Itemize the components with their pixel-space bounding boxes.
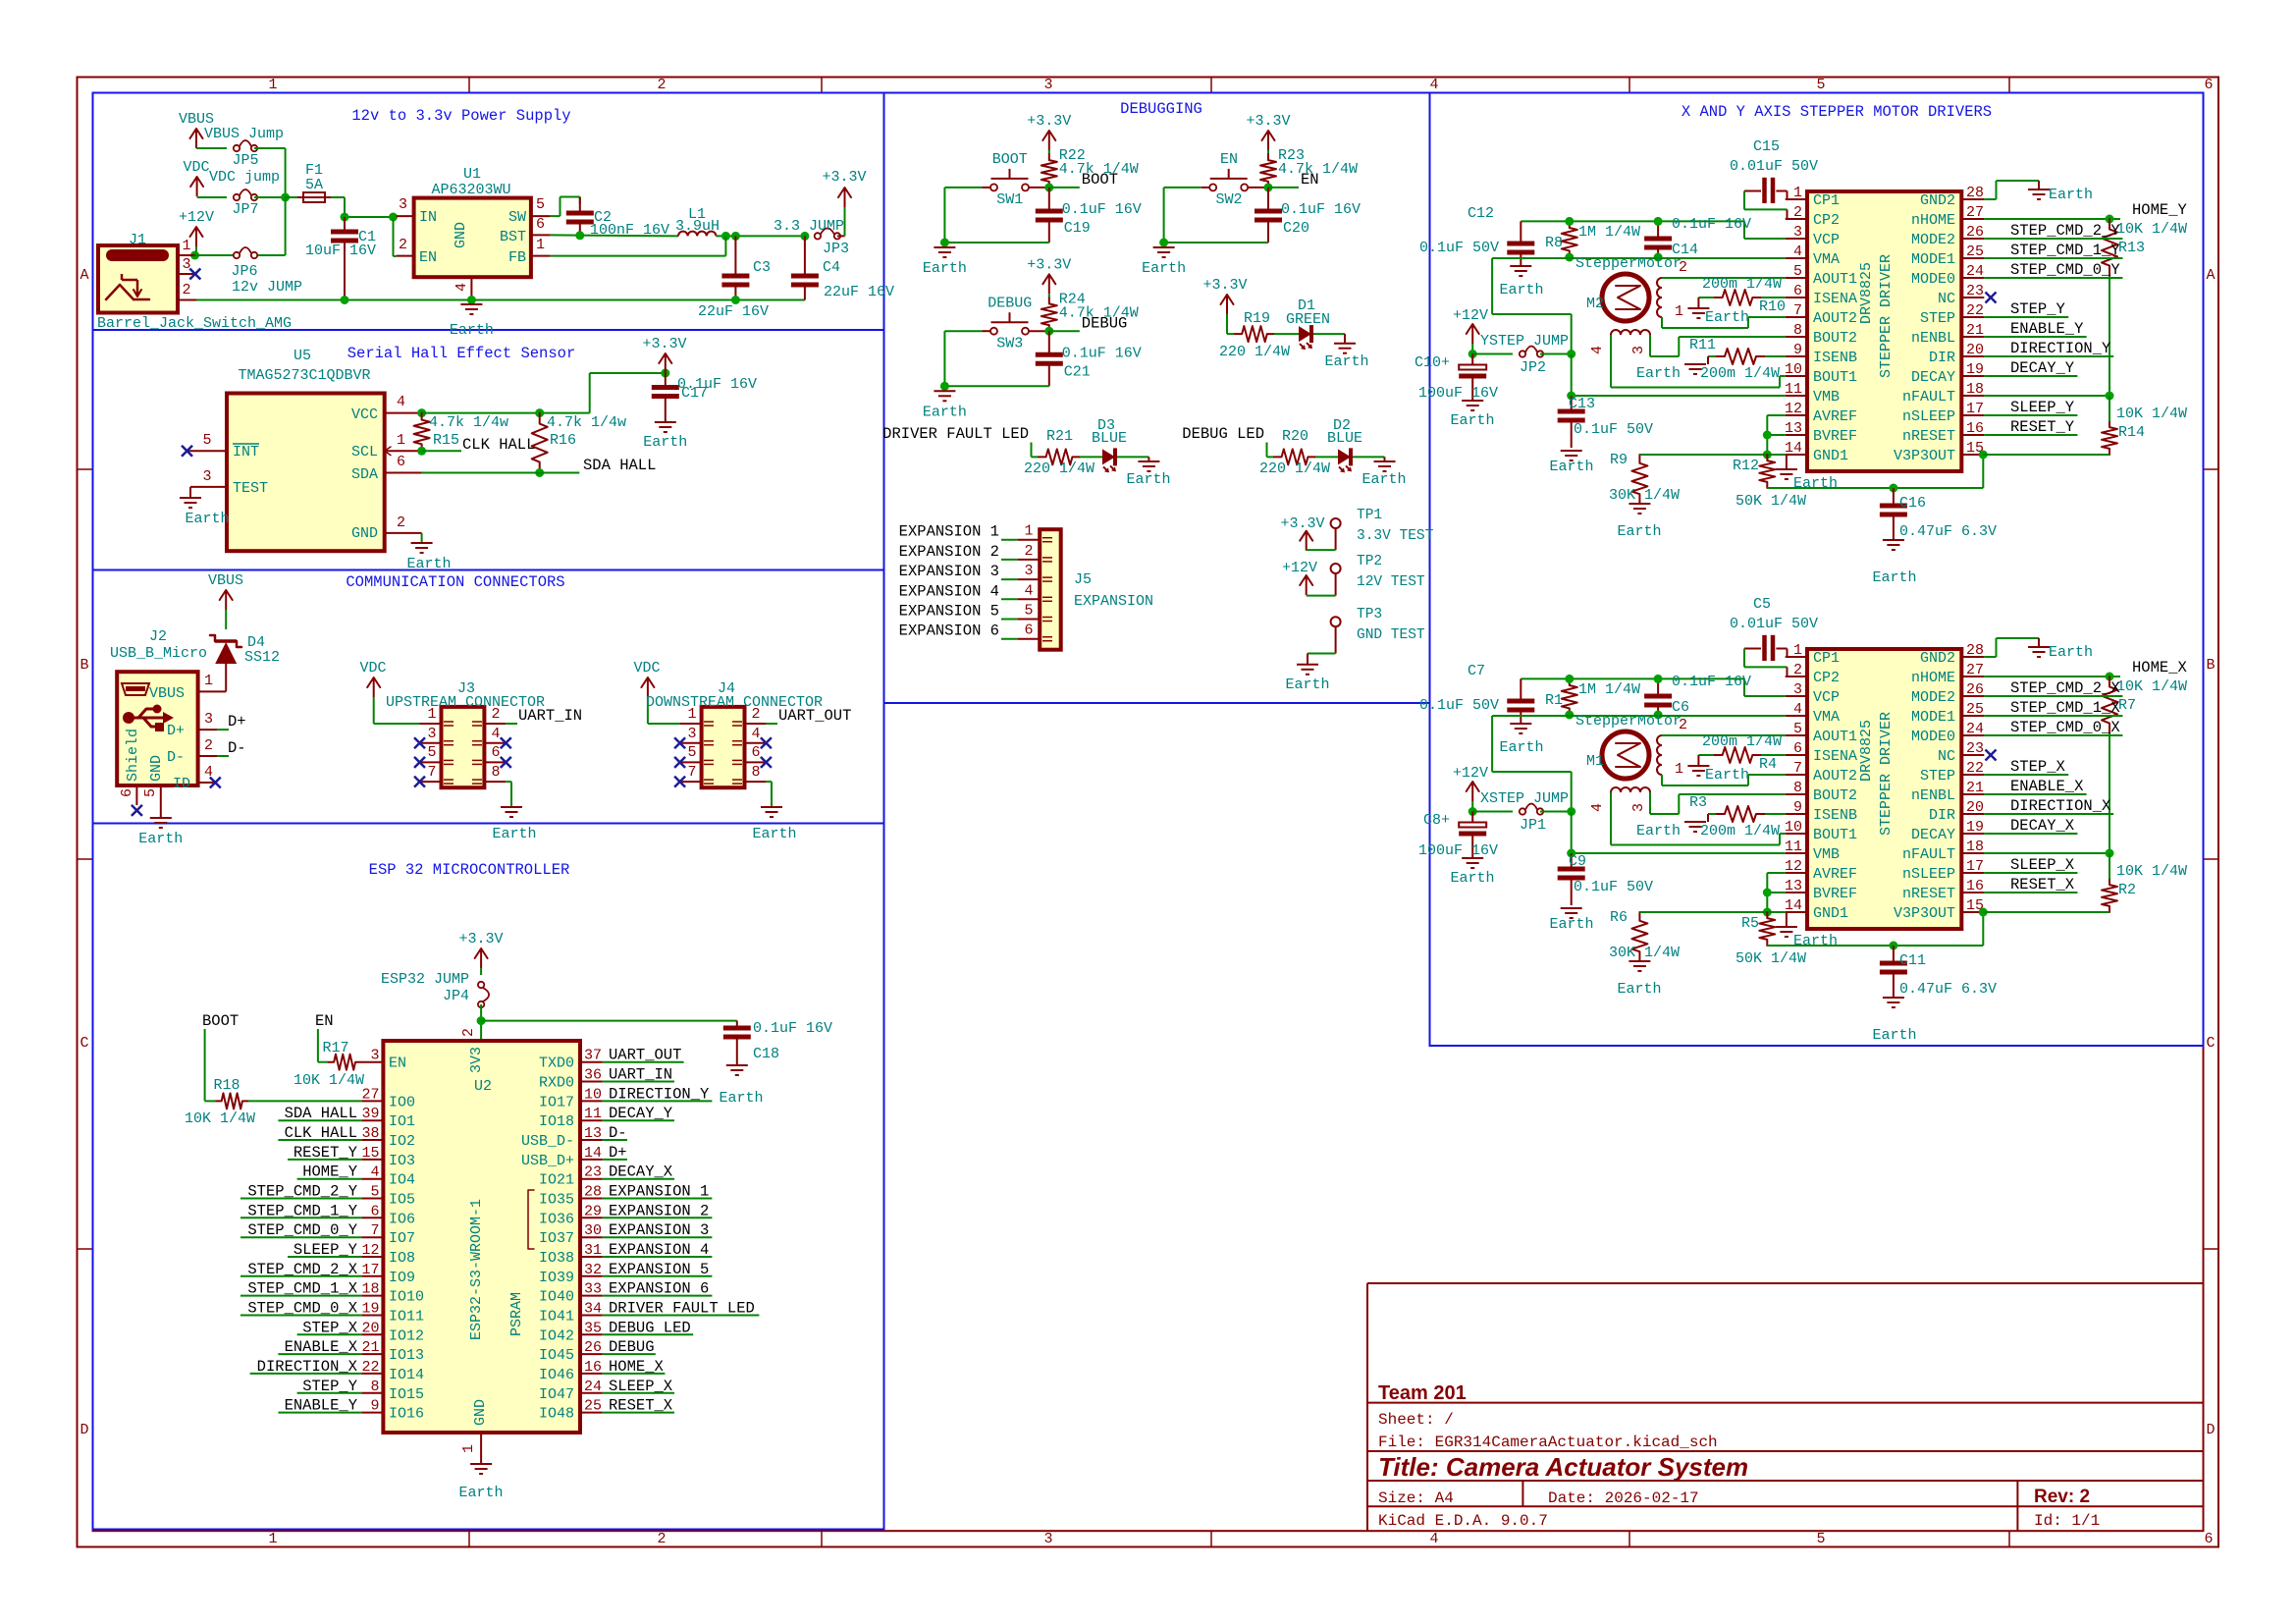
svg-text:1: 1 [182, 238, 190, 254]
svg-text:DEBUGGING: DEBUGGING [1120, 100, 1202, 118]
svg-text:RESET_Y: RESET_Y [2010, 418, 2075, 436]
J3 pin 7 [420, 781, 442, 783]
wire R12 to V3P3OUT Y [1767, 487, 1983, 489]
svg-text:0.47uF 6.3V: 0.47uF 6.3V [1899, 981, 1997, 998]
resistor R4 200m [1714, 747, 1761, 763]
fuse F1 [286, 196, 297, 198]
svg-text:EXPANSION 2: EXPANSION 2 [609, 1202, 709, 1219]
capacitor C1 [344, 217, 346, 230]
wire J1 pin1 to JP6 [195, 254, 238, 256]
svg-text:220 1/4W: 220 1/4W [1219, 344, 1290, 360]
ground C16 [1883, 539, 1904, 541]
svg-text:nRESET: nRESET [1902, 886, 1955, 902]
svg-text:13: 13 [584, 1125, 602, 1142]
svg-text:19: 19 [1966, 819, 1984, 836]
ground D1 [1334, 343, 1356, 345]
jumper JP7 [234, 194, 240, 200]
svg-text:1: 1 [1793, 185, 1802, 201]
svg-text:27: 27 [1966, 204, 1984, 221]
pin 18 nFAULT X [1961, 852, 1984, 854]
pin 19 DECAY Y [1961, 375, 1984, 377]
svg-text:DRV8825: DRV8825 [1858, 262, 1875, 324]
svg-text:IO38: IO38 [539, 1250, 574, 1267]
svg-text:C19: C19 [1064, 220, 1091, 237]
svg-text:23: 23 [1966, 283, 1984, 299]
capacitor C20 [1267, 188, 1269, 209]
svg-text:C9: C9 [1569, 853, 1586, 870]
U2 pin 16 IO46 [580, 1373, 603, 1375]
svg-text:GND TEST: GND TEST [1357, 627, 1425, 643]
pin 10 BOUT1 Y [1786, 375, 1807, 377]
svg-text:21: 21 [361, 1339, 379, 1356]
svg-text:EXPANSION 5: EXPANSION 5 [609, 1261, 709, 1278]
svg-text:UART_IN: UART_IN [518, 707, 582, 725]
svg-text:CP1: CP1 [1813, 650, 1840, 667]
svg-text:6: 6 [1793, 283, 1802, 299]
pin 21 nENBL X [1961, 793, 1984, 795]
IC U2 ESP32-S3-WROOM-1 [383, 1041, 580, 1433]
svg-text:37: 37 [584, 1048, 602, 1064]
svg-text:7: 7 [1793, 760, 1802, 777]
J4 pin 2 UART_OUT [745, 723, 767, 725]
svg-text:14: 14 [584, 1145, 602, 1162]
svg-text:D-: D- [609, 1124, 627, 1142]
switch SW1 [983, 187, 991, 189]
svg-text:R17: R17 [322, 1040, 348, 1056]
svg-text:IN: IN [419, 209, 437, 226]
svg-text:MODE2: MODE2 [1911, 232, 1955, 248]
svg-text:25: 25 [1966, 244, 1984, 260]
J3 pin 1 [420, 723, 442, 725]
svg-text:+3.3V: +3.3V [1027, 113, 1071, 130]
svg-text:DRIVER FAULT LED: DRIVER FAULT LED [609, 1300, 755, 1318]
svg-text:BOOT: BOOT [992, 151, 1028, 168]
svg-text:STEP_CMD_2_Y: STEP_CMD_2_Y [2010, 222, 2120, 240]
svg-text:INT: INT [233, 444, 259, 460]
ground D3 [1138, 460, 1159, 462]
wire nFAULT Y [1984, 395, 2109, 397]
power +3.3V SW2 [1267, 131, 1269, 150]
svg-text:9: 9 [1793, 342, 1802, 358]
junction R8 top [1565, 217, 1574, 226]
capacitor C7 [1520, 678, 1522, 699]
svg-text:C5: C5 [1753, 596, 1771, 613]
svg-text:STEP: STEP [1920, 768, 1955, 785]
svg-text:D-: D- [167, 749, 185, 766]
svg-text:5: 5 [536, 196, 545, 213]
wire ENABLE_X [1984, 793, 2086, 795]
wire JP7 to junction [254, 196, 286, 198]
svg-text:C20: C20 [1283, 220, 1309, 237]
svg-text:DIRECTION_X: DIRECTION_X [257, 1358, 358, 1376]
U2 pin 39 IO1 [361, 1119, 383, 1121]
svg-text:6: 6 [491, 744, 500, 761]
wire DECAY_Y [1984, 375, 2077, 377]
resistor R14 10K [2102, 421, 2117, 455]
svg-text:ENABLE_Y: ENABLE_Y [285, 1397, 358, 1415]
capacitor C18 [736, 1021, 738, 1026]
capacitor C2 [579, 197, 581, 212]
resistor R1 1M [1562, 678, 1577, 715]
svg-text:34: 34 [584, 1301, 602, 1318]
pin 14 GND1 Y [1786, 454, 1807, 456]
svg-text:SW3: SW3 [996, 335, 1023, 352]
svg-text:R11: R11 [1689, 337, 1716, 353]
wire DECAY_X [1984, 833, 2077, 835]
capacitor C19 [1048, 188, 1050, 209]
svg-text:+3.3V: +3.3V [1246, 113, 1290, 130]
svg-text:IO4: IO4 [389, 1172, 415, 1189]
svg-text:8: 8 [491, 764, 500, 781]
U2 pin 7 IO7 [361, 1236, 383, 1238]
pin 27 nHOME X [1961, 676, 1984, 677]
U5 pin 3 TEST [190, 486, 227, 488]
svg-text:nFAULT: nFAULT [1902, 846, 1955, 863]
svg-text:HOME_Y: HOME_Y [2132, 201, 2188, 219]
svg-text:R21: R21 [1046, 428, 1073, 445]
capacitor C13 [1571, 396, 1573, 409]
no-connect J3 pin5 [414, 757, 425, 768]
svg-text:Earth: Earth [1362, 471, 1406, 488]
svg-text:0.47uF 6.3V: 0.47uF 6.3V [1899, 523, 1997, 540]
U5 pin 1 SCL [385, 450, 422, 452]
ground C8 [1462, 857, 1483, 859]
svg-text:IO35: IO35 [539, 1192, 574, 1209]
svg-text:+3.3V: +3.3V [1027, 256, 1071, 273]
svg-text:28: 28 [1966, 185, 1984, 201]
svg-text:3: 3 [1024, 563, 1033, 579]
svg-text:SLEEP_Y: SLEEP_Y [294, 1241, 358, 1259]
svg-text:200m 1/4W: 200m 1/4W [1702, 733, 1782, 750]
svg-text:0.1uF 50V: 0.1uF 50V [1574, 879, 1653, 895]
resistor R5 50K [1759, 912, 1775, 946]
capacitor C15 [1787, 191, 1789, 200]
svg-text:26: 26 [1966, 681, 1984, 698]
svg-text:C13: C13 [1569, 396, 1595, 412]
svg-text:+12V: +12V [1282, 560, 1317, 576]
svg-text:Earth: Earth [1499, 282, 1543, 298]
test point TP3 [1331, 617, 1341, 626]
U2 pin 34 IO41 [580, 1315, 603, 1317]
no-connect J4 pin7 [674, 777, 685, 787]
svg-text:EXPANSION 1: EXPANSION 1 [609, 1183, 709, 1201]
wire JP5 to bus corner [254, 147, 286, 149]
svg-text:Date: 2026-02-17: Date: 2026-02-17 [1548, 1489, 1699, 1507]
svg-text:R15: R15 [433, 432, 459, 449]
wire STEP_Y [1984, 316, 2068, 318]
svg-text:220 1/4W: 220 1/4W [1259, 460, 1330, 477]
svg-text:Earth: Earth [406, 556, 451, 572]
wire VBUS to JP5 [196, 147, 227, 149]
svg-text:SCL: SCL [351, 444, 378, 460]
resistor R3 200m [1716, 806, 1765, 822]
svg-text:EXPANSION 2: EXPANSION 2 [899, 543, 999, 561]
svg-text:R13: R13 [2118, 240, 2145, 256]
ground U5 GND [421, 533, 423, 543]
svg-text:IO18: IO18 [539, 1113, 574, 1130]
U2 pin 17 IO9 [361, 1275, 383, 1277]
svg-text:+3.3V: +3.3V [1280, 515, 1324, 532]
svg-text:6: 6 [751, 744, 760, 761]
svg-text:File: EGR314CameraActuator.kic: File: EGR314CameraActuator.kicad_sch [1378, 1434, 1718, 1451]
svg-text:3.3 JUMP: 3.3 JUMP [774, 218, 844, 235]
capacitor C10 100uF [1471, 354, 1473, 366]
svg-text:DEBUG: DEBUG [1082, 314, 1128, 332]
svg-text:KiCad E.D.A. 9.0.7: KiCad E.D.A. 9.0.7 [1378, 1512, 1548, 1530]
wire BOUT1 Y [1610, 335, 1612, 388]
svg-text:RESET_Y: RESET_Y [294, 1144, 358, 1162]
U2 pin 21 IO13 [361, 1353, 383, 1355]
no-connect J4 pin3 [674, 737, 685, 748]
svg-text:8: 8 [1793, 322, 1802, 339]
U2 pin 3 EN [361, 1061, 383, 1063]
svg-text:Earth: Earth [1549, 459, 1593, 475]
svg-text:220 1/4W: 220 1/4W [1024, 460, 1095, 477]
svg-text:3V3: 3V3 [468, 1047, 485, 1073]
svg-text:1: 1 [460, 1444, 477, 1453]
svg-text:nHOME: nHOME [1911, 670, 1955, 686]
svg-text:VMA: VMA [1813, 251, 1840, 268]
svg-text:1: 1 [687, 706, 696, 723]
U2 pin 32 IO39 [580, 1275, 603, 1277]
svg-text:GND1: GND1 [1813, 905, 1848, 922]
svg-text:6: 6 [119, 788, 135, 797]
svg-text:VBUS: VBUS [149, 685, 185, 702]
svg-text:ISENB: ISENB [1813, 350, 1857, 366]
U2 pin 4 IO4 [361, 1178, 383, 1180]
svg-text:Earth: Earth [138, 831, 183, 847]
svg-text:CP2: CP2 [1813, 212, 1840, 229]
wire VMB rail X [1571, 812, 1573, 854]
pin 7 AOUT2 X [1786, 774, 1807, 776]
power +3.3V SW3 [1048, 274, 1050, 294]
svg-text:Earth: Earth [923, 404, 967, 420]
junction SCL R15 [417, 447, 426, 456]
svg-text:3: 3 [1793, 681, 1802, 698]
U2 pin 8 IO15 [361, 1392, 383, 1394]
capacitor C11 0.47uF [1893, 946, 1895, 961]
pin 16 nRESET Y [1961, 434, 1984, 436]
svg-text:EXPANSION: EXPANSION [1074, 593, 1153, 610]
svg-text:24: 24 [1966, 721, 1984, 737]
svg-text:SLEEP_X: SLEEP_X [2010, 856, 2075, 874]
svg-text:22: 22 [1966, 760, 1984, 777]
ground C17 [655, 421, 676, 423]
wire V3P3OUT to R14 X [1983, 911, 2109, 913]
no-connect J4 pin4 [761, 737, 772, 748]
svg-text:27: 27 [361, 1086, 379, 1103]
svg-text:11: 11 [584, 1106, 602, 1122]
svg-text:VBUS: VBUS [208, 572, 243, 589]
power +3.3V TP1 [1306, 531, 1308, 551]
J4 pin 5 [680, 761, 702, 763]
wire driver fault led [1031, 443, 1033, 458]
svg-text:Earth: Earth [185, 511, 229, 527]
svg-text:JP2: JP2 [1520, 359, 1546, 376]
IC U3 DRV8825 stepper driver X [1807, 649, 1961, 929]
svg-text:DECAY_X: DECAY_X [609, 1164, 673, 1181]
svg-text:12: 12 [1785, 401, 1802, 417]
svg-text:31: 31 [584, 1242, 602, 1259]
test point TP2 [1331, 564, 1341, 573]
svg-text:DIRECTION_Y: DIRECTION_Y [609, 1085, 710, 1103]
wire BOUT1 X [1610, 792, 1612, 845]
pin 23 NC X [1961, 754, 1984, 756]
resistor R11 200m [1716, 349, 1765, 364]
svg-text:100uF 16V: 100uF 16V [1418, 385, 1498, 402]
pin 20 DIR Y [1961, 355, 1984, 357]
svg-text:17: 17 [1966, 401, 1984, 417]
svg-text:3: 3 [204, 711, 213, 728]
svg-text:EXPANSION 4: EXPANSION 4 [609, 1241, 709, 1259]
svg-text:IO47: IO47 [539, 1386, 574, 1403]
svg-text:SDA HALL: SDA HALL [583, 457, 656, 474]
svg-text:18: 18 [1966, 839, 1984, 855]
svg-text:ISENA: ISENA [1813, 291, 1857, 307]
svg-text:AOUT2: AOUT2 [1813, 310, 1857, 327]
wire EN label to R17 [317, 1029, 319, 1062]
J3 pin 3 [420, 742, 442, 744]
resistor R23 [1267, 150, 1269, 154]
svg-text:GND2: GND2 [1920, 192, 1955, 209]
svg-text:5: 5 [1024, 603, 1033, 620]
title block frame [1366, 1283, 1368, 1531]
svg-text:STEP_CMD_0_Y: STEP_CMD_0_Y [247, 1221, 357, 1239]
pin 2 CP2 Y [1786, 218, 1807, 220]
wire F1 to IN node [331, 196, 345, 198]
no-connect J3 pin7 [414, 777, 425, 787]
pin 27 nHOME Y [1961, 218, 1984, 220]
junction GND1 X [1763, 908, 1772, 917]
junction C17 top [661, 369, 669, 378]
svg-text:D: D [80, 1422, 88, 1438]
svg-text:IO3: IO3 [389, 1153, 415, 1169]
svg-text:DECAY_X: DECAY_X [2010, 817, 2075, 835]
capacitor C6 [1657, 678, 1659, 694]
wire debug led [1266, 443, 1268, 458]
svg-text:Earth: Earth [1793, 475, 1838, 492]
svg-text:4: 4 [751, 726, 760, 742]
svg-text:Earth: Earth [719, 1090, 763, 1107]
svg-text:9: 9 [370, 1398, 379, 1415]
svg-text:13: 13 [1785, 878, 1802, 894]
power +12V Y [1471, 324, 1473, 344]
svg-text:EXPANSION 6: EXPANSION 6 [609, 1280, 709, 1298]
svg-text:GREEN: GREEN [1286, 311, 1330, 328]
svg-text:USB_D+: USB_D+ [521, 1153, 574, 1169]
svg-text:Earth: Earth [1285, 677, 1329, 693]
svg-text:B: B [2206, 657, 2215, 674]
power symbol +3.3V power supply [844, 188, 846, 207]
svg-text:+12V: +12V [179, 209, 214, 226]
svg-text:IO14: IO14 [389, 1367, 424, 1383]
svg-text:JP3: JP3 [823, 241, 849, 257]
svg-text:U1: U1 [463, 166, 481, 183]
svg-text:3.3V TEST: 3.3V TEST [1357, 528, 1434, 544]
wire TP1 [1335, 528, 1337, 550]
wire R18 to IO0 [248, 1100, 361, 1102]
svg-text:DECAY_Y: DECAY_Y [2010, 359, 2075, 377]
no-connect J4 pin5 [674, 757, 685, 768]
svg-text:BLUE: BLUE [1092, 430, 1127, 447]
svg-text:4: 4 [1793, 701, 1802, 718]
svg-text:ENABLE_X: ENABLE_X [2010, 778, 2084, 795]
svg-text:17: 17 [361, 1262, 379, 1278]
resistor R10 200m [1714, 290, 1761, 305]
svg-text:28: 28 [1966, 642, 1984, 659]
no-connect J3 pin6 [501, 757, 511, 768]
svg-text:IO48: IO48 [539, 1406, 574, 1423]
pin 24 MODE0 Y [1961, 277, 1984, 279]
inductor L1 [678, 232, 716, 237]
IC U4 DRV8825 stepper driver Y [1807, 191, 1961, 471]
svg-text:Earth: Earth [923, 260, 967, 277]
svg-text:R2: R2 [2118, 882, 2136, 898]
junction JP3 node [800, 232, 809, 241]
svg-text:2: 2 [751, 706, 760, 723]
connector J4 [702, 707, 745, 787]
svg-text:10K 1/4W: 10K 1/4W [2116, 221, 2187, 238]
svg-text:7: 7 [370, 1222, 379, 1239]
svg-text:3: 3 [1043, 77, 1052, 93]
svg-text:TMAG5273C1QDBVR: TMAG5273C1QDBVR [238, 367, 370, 384]
svg-text:JP4: JP4 [443, 988, 469, 1004]
junction L1 out A [721, 232, 730, 241]
U5 pin 4 VCC [385, 412, 422, 414]
test point TP1 [1331, 518, 1341, 528]
svg-text:1M 1/4W: 1M 1/4W [1578, 224, 1640, 241]
svg-text:BVREF: BVREF [1813, 428, 1857, 445]
junction SW1 node [1044, 183, 1053, 191]
wire STEP_CMD_1_Y [1984, 257, 2122, 259]
U2 pin 36 RXD0 [580, 1081, 603, 1083]
svg-text:Team 201: Team 201 [1378, 1382, 1467, 1404]
svg-text:Earth: Earth [492, 826, 536, 842]
svg-text:0.01uF 50V: 0.01uF 50V [1730, 158, 1818, 175]
J3 pin 4 [484, 742, 506, 744]
capacitor C16 0.47uF [1893, 488, 1895, 504]
svg-text:38: 38 [361, 1125, 379, 1142]
ground SW1 [934, 246, 955, 248]
J2 pin 6 Shield [135, 785, 137, 805]
pin 9 ISENB Y [1786, 355, 1807, 357]
svg-text:nSLEEP: nSLEEP [1902, 866, 1955, 883]
junction VCC R15 [417, 408, 426, 417]
U2 pin 12 IO8 [361, 1256, 383, 1258]
jumper JP6 [234, 252, 240, 258]
svg-text:18: 18 [1966, 381, 1984, 398]
junction L1 out B [731, 232, 740, 241]
svg-text:VBUS Jump: VBUS Jump [204, 126, 284, 142]
wire ISENA X [1761, 754, 1786, 756]
led D1 GREEN [1274, 333, 1299, 335]
svg-text:11: 11 [1785, 381, 1802, 398]
svg-text:JP1: JP1 [1520, 817, 1546, 834]
resistor R13 10K [2102, 219, 2117, 276]
pin 23 NC Y [1961, 297, 1984, 298]
ground J2 [150, 817, 172, 819]
pin 26 MODE2 Y [1961, 238, 1984, 240]
ground SW2 [1153, 246, 1175, 248]
junction C1 bottom [341, 296, 349, 304]
led D2 BLUE [1315, 456, 1338, 458]
junction R1 top [1565, 675, 1574, 683]
svg-text:4.7k 1/4w: 4.7k 1/4w [547, 414, 626, 431]
U5 pin 5 INT [187, 450, 228, 452]
wire TP2 [1335, 573, 1337, 596]
svg-text:VMB: VMB [1813, 846, 1840, 863]
svg-text:16: 16 [584, 1359, 602, 1376]
